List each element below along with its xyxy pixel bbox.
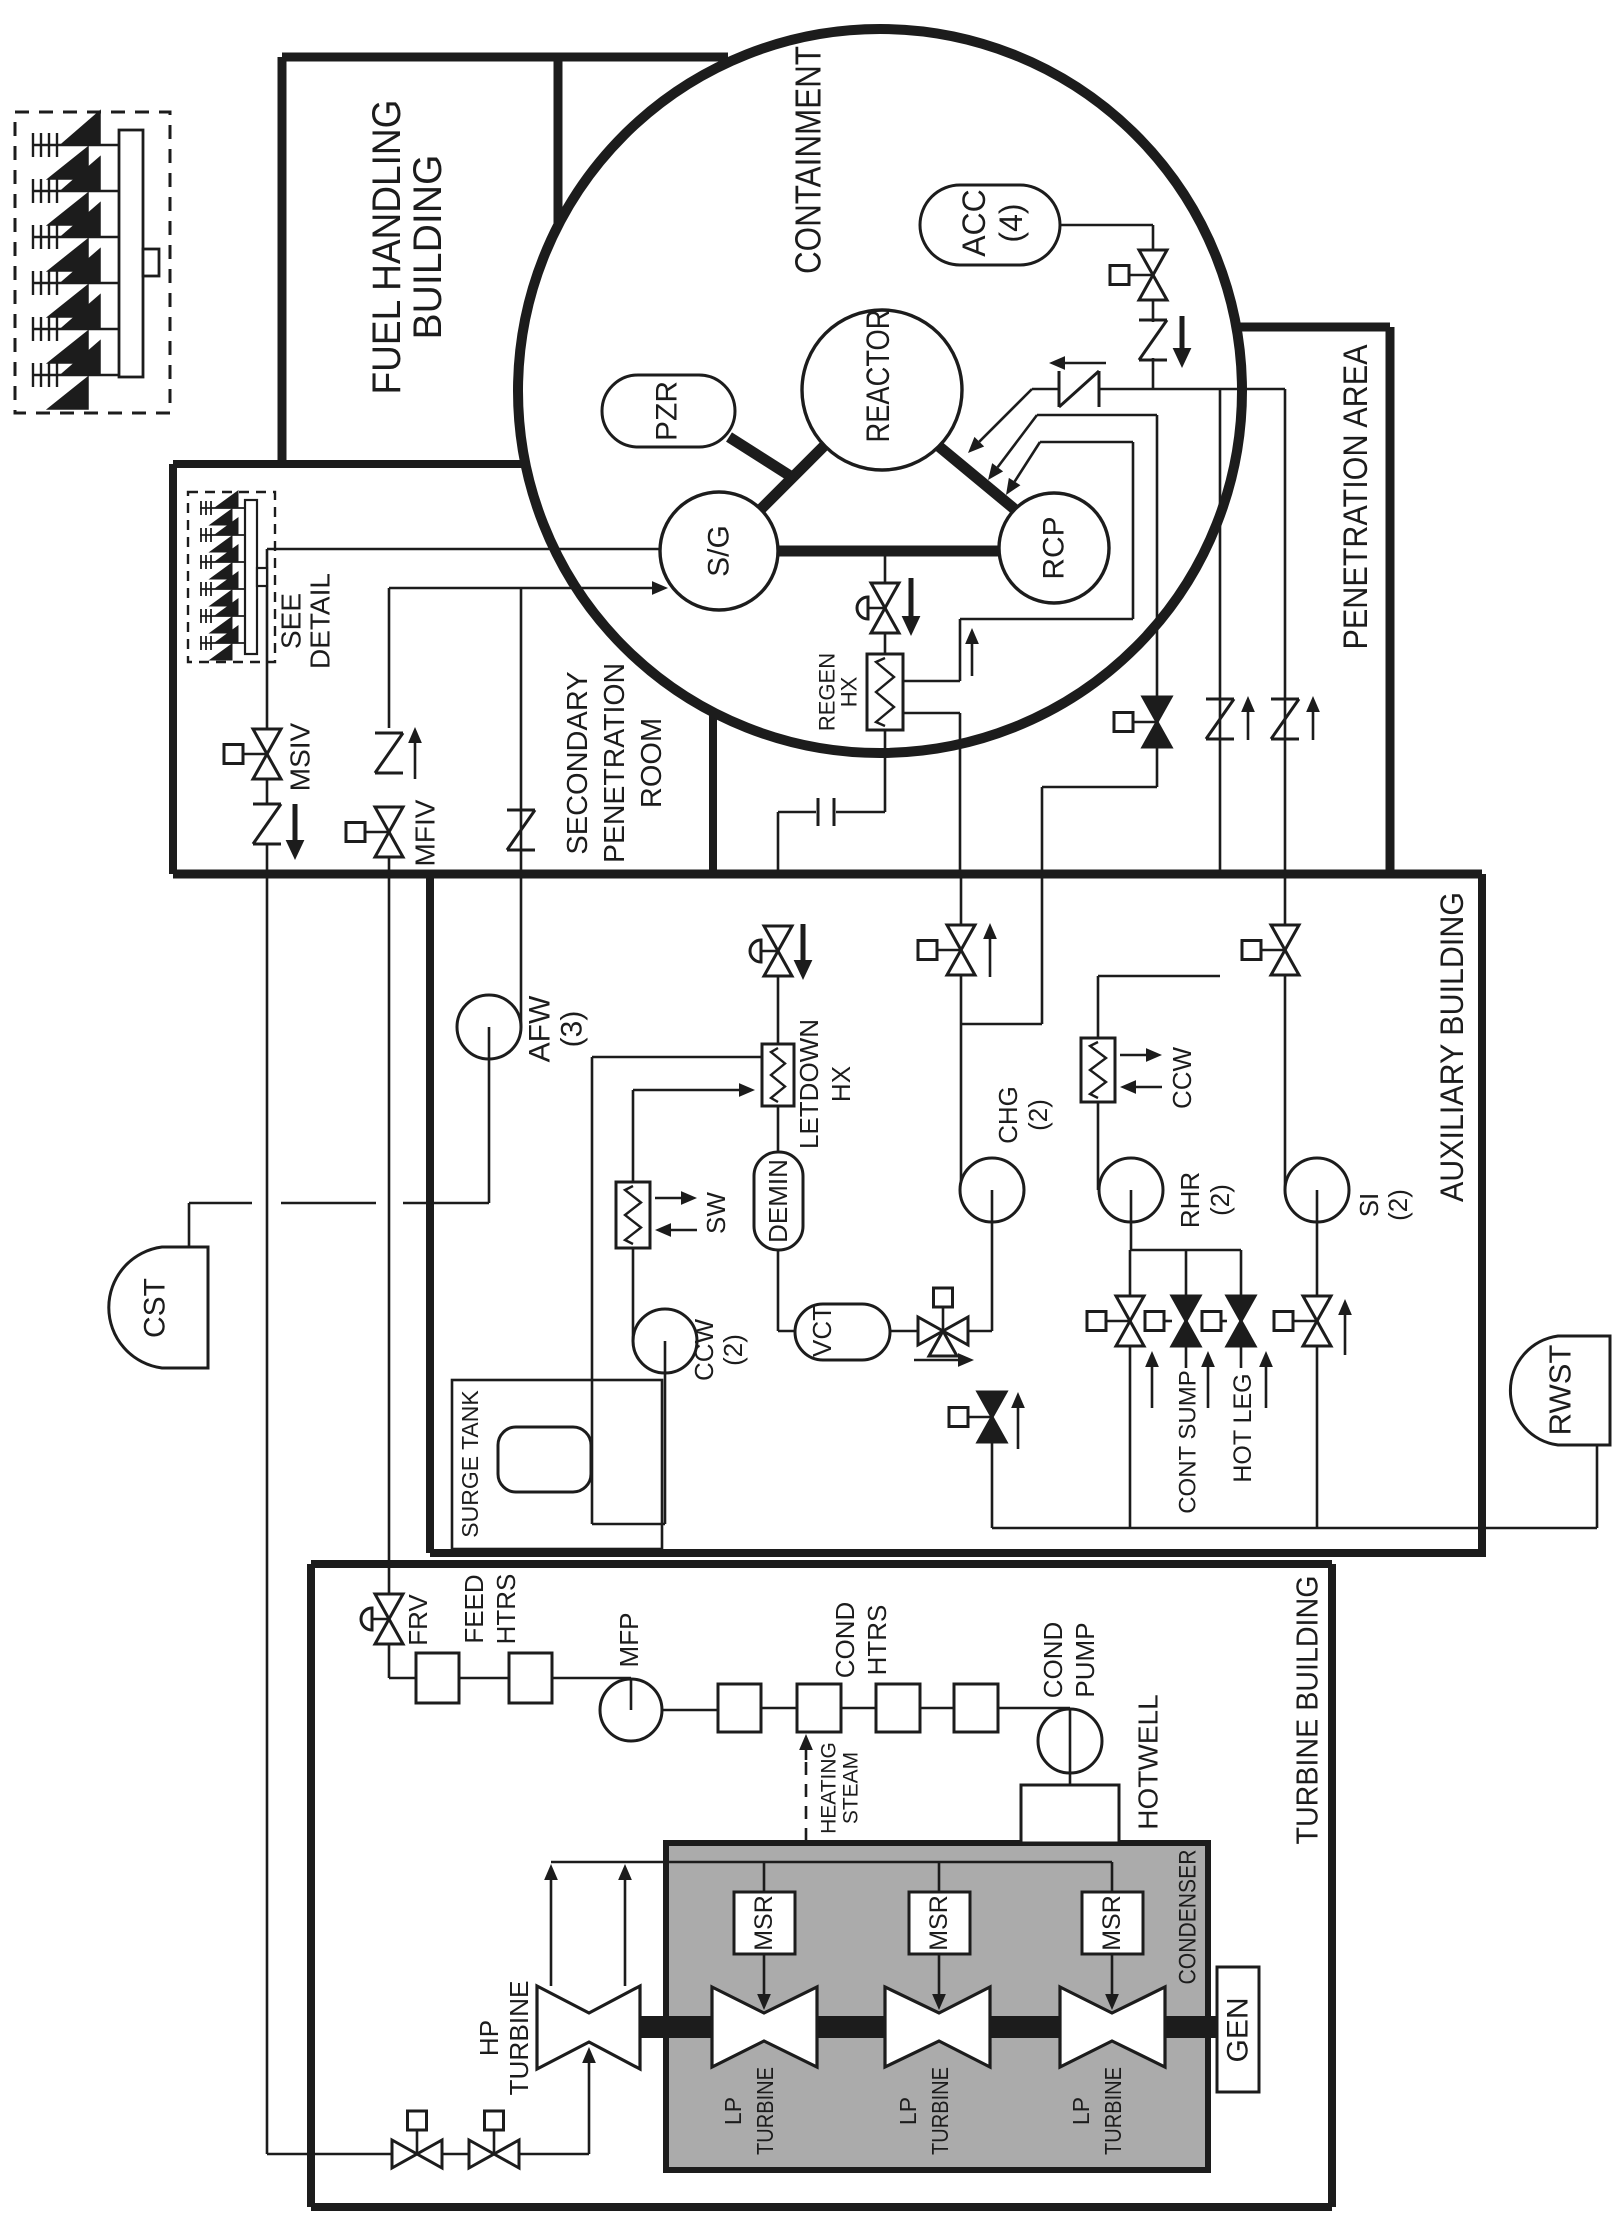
wire MSR stub 1 bbox=[763, 1862, 766, 1892]
wire VCT to 3way bbox=[890, 1330, 918, 1333]
msr arrow 3 bbox=[1111, 1954, 1114, 1994]
flow arrow up charging bbox=[971, 644, 974, 676]
svg-text:FUEL HANDLING: FUEL HANDLING bbox=[365, 100, 409, 395]
wire RHR suction line bbox=[1219, 389, 1222, 874]
flow arrow down letdown aux bbox=[801, 924, 806, 960]
wire MSIV to relief bbox=[266, 779, 269, 804]
svg-text:(3): (3) bbox=[556, 1011, 589, 1048]
safety injection pump SI bbox=[1285, 1158, 1349, 1222]
main steam arrow into HP bbox=[588, 2063, 591, 2154]
ccw supply arrow bbox=[1120, 1054, 1146, 1057]
wire SI injection diagonal bbox=[979, 389, 1032, 442]
svg-text:TURBINE: TURBINE bbox=[1100, 2067, 1126, 2155]
svg-text:MSR: MSR bbox=[750, 1895, 778, 1951]
svg-text:DEMIN: DEMIN bbox=[763, 1159, 793, 1243]
component cooling HX on RHR bbox=[1081, 1038, 1115, 1102]
svg-text:HOT LEG: HOT LEG bbox=[1229, 1373, 1257, 1482]
wire seal outer diagonal bbox=[998, 415, 1037, 467]
svg-text:SECONDARY: SECONDARY bbox=[562, 671, 594, 854]
condensate heater 3 bbox=[876, 1684, 920, 1732]
main feed pump MFP bbox=[600, 1679, 662, 1741]
condensate pump bbox=[1038, 1709, 1102, 1773]
feedwater heater 2 bbox=[509, 1653, 552, 1703]
wire ch3-ch4 bbox=[920, 1707, 954, 1710]
relief valve main steam bbox=[253, 803, 281, 806]
wire charging suction header bbox=[991, 1441, 994, 1528]
wire RHR pump header bbox=[1130, 1249, 1241, 1252]
svg-text:HTRS: HTRS bbox=[491, 1574, 521, 1645]
wire MFP to cond heaters bbox=[662, 1709, 718, 1712]
svg-text:GEN: GEN bbox=[1222, 1997, 1255, 2062]
moisture separator MSR 1 bbox=[734, 1892, 795, 1954]
moisture separator MSR 2 bbox=[909, 1892, 970, 1954]
building boundary wall (aux top) bbox=[173, 870, 1482, 879]
svg-text:TURBINE: TURBINE bbox=[504, 1981, 534, 2096]
flow arrow down letdown bbox=[909, 578, 914, 616]
svg-text:TURBINE BUILDING: TURBINE BUILDING bbox=[1290, 1576, 1325, 1845]
wire RHR drop A bbox=[1129, 1250, 1132, 1297]
wire seal inner diagonal bbox=[1015, 442, 1040, 482]
heating steam dashed line bbox=[805, 1762, 808, 1984]
svg-text:CONTAINMENT: CONTAINMENT bbox=[788, 46, 829, 274]
wire SI pump suction line bbox=[1284, 389, 1287, 874]
heating steam arrow bbox=[805, 1750, 808, 1760]
flow arrow up SI suction bbox=[1344, 1315, 1347, 1355]
wire ACC to relief bbox=[1152, 299, 1155, 322]
turbine control valve bbox=[469, 2140, 494, 2168]
svg-text:(2): (2) bbox=[1383, 1189, 1413, 1221]
svg-text:BUILDING: BUILDING bbox=[406, 155, 450, 340]
wire SW HX to CCW pump bbox=[632, 1248, 635, 1341]
wire feedwater to S/G bbox=[389, 587, 652, 590]
reactor coolant pump RCP bbox=[999, 493, 1109, 603]
wire main steam turbine inlet bbox=[267, 2153, 392, 2156]
wire seal injection outer bbox=[1037, 414, 1157, 417]
svg-text:ACC: ACC bbox=[956, 189, 992, 257]
wire ch4 to cond pump bbox=[998, 1707, 1070, 1710]
svg-text:(2): (2) bbox=[1023, 1099, 1053, 1131]
moisture separator MSR 3 bbox=[1082, 1892, 1143, 1954]
demineralizer DEMIN bbox=[754, 1152, 803, 1250]
wire RWST suction bbox=[1596, 1445, 1599, 1528]
surge tank box bbox=[452, 1380, 662, 1549]
mini fuel assembly 1 bbox=[200, 507, 245, 509]
secondary penetration room outline bbox=[173, 460, 525, 468]
svg-text:TURBINE: TURBINE bbox=[927, 2067, 953, 2155]
wire MSR stub 2 bbox=[938, 1862, 941, 1892]
wire crossover header bbox=[551, 1861, 1112, 1864]
svg-text:LP: LP bbox=[895, 2097, 921, 2125]
containment penetration symbol bbox=[817, 798, 820, 826]
svg-text:AFW: AFW bbox=[524, 995, 557, 1062]
sw supply arrow bbox=[655, 1197, 681, 1200]
auxiliary feedwater pump AFW bbox=[457, 995, 521, 1059]
refueling water storage tank RWST bbox=[1510, 1336, 1610, 1445]
wire SW HX to letdown HX bbox=[633, 1089, 739, 1092]
wire RHR drop A lower bbox=[1129, 1345, 1132, 1528]
valve seal return (closed) bbox=[1143, 697, 1171, 722]
residual heat removal pump RHR bbox=[1099, 1158, 1163, 1222]
wire hot leg reactor-RCP bbox=[936, 444, 1018, 512]
check valve RHR line bbox=[1206, 698, 1234, 701]
wire charging from aux bbox=[959, 713, 962, 874]
svg-text:(2): (2) bbox=[718, 1334, 748, 1366]
svg-text:HEATING: HEATING bbox=[818, 1742, 841, 1834]
wire hot leg stub bbox=[1240, 1345, 1243, 1368]
actuator between A-B bbox=[1164, 1320, 1172, 1323]
fuel assembly 6 bbox=[32, 374, 119, 376]
flow arrow up hot leg bbox=[1265, 1367, 1268, 1408]
containment circle bbox=[518, 29, 1242, 753]
check valve AFW line bbox=[507, 809, 535, 812]
LP turbine 3 bbox=[1060, 1987, 1165, 2067]
condensate heater 1 bbox=[718, 1684, 761, 1732]
svg-text:MSR: MSR bbox=[1098, 1895, 1126, 1951]
wire letdown from cold leg bbox=[884, 551, 887, 583]
regenerative heat exchanger REGEN HX bbox=[867, 654, 903, 730]
generator GEN bbox=[1217, 1967, 1259, 2092]
wire SI suction lower bbox=[1316, 1345, 1319, 1528]
check valve SI injection bbox=[1058, 371, 1061, 407]
LP turbine 2 bbox=[885, 1987, 990, 2067]
LP turbine 1 bbox=[712, 1987, 817, 2067]
svg-text:HP: HP bbox=[474, 2020, 504, 2056]
svg-text:CST: CST bbox=[139, 1278, 172, 1338]
wire ch2-ch3 bbox=[841, 1707, 876, 1710]
wire 3way to charging line bbox=[968, 1330, 992, 1333]
turbine stop valve bbox=[392, 2140, 417, 2168]
auxiliary building outline bbox=[1478, 874, 1486, 1553]
wire SI header bbox=[1098, 388, 1285, 391]
valve charging isolation bbox=[947, 925, 975, 950]
svg-text:AUXILIARY BUILDING: AUXILIARY BUILDING bbox=[1434, 892, 1470, 1202]
svg-text:HX: HX bbox=[826, 1066, 856, 1102]
fuel assembly 4 bbox=[32, 282, 119, 284]
svg-text:STEAM: STEAM bbox=[840, 1752, 863, 1824]
svg-text:SEE: SEE bbox=[276, 593, 307, 649]
svg-text:PZR: PZR bbox=[651, 381, 684, 441]
wire MSR stub 3 bbox=[1111, 1862, 1114, 1892]
auxiliary building west wall bbox=[426, 874, 434, 1553]
svg-text:S/G: S/G bbox=[703, 525, 736, 577]
svg-text:FEED: FEED bbox=[459, 1574, 489, 1643]
flow arrow up A bbox=[1151, 1367, 1154, 1408]
wire seal return riser bbox=[1156, 415, 1159, 697]
mini rack tab bbox=[257, 568, 267, 586]
charging pump CHG bbox=[960, 1158, 1024, 1222]
svg-text:CHG: CHG bbox=[993, 1086, 1023, 1144]
fuel assembly 2 bbox=[32, 190, 119, 192]
wire letdown HX to demin bbox=[777, 1106, 780, 1152]
svg-text:RHR: RHR bbox=[1175, 1172, 1205, 1228]
hotwell bbox=[1021, 1785, 1119, 1843]
valve cont sump (closed) bbox=[1172, 1296, 1200, 1321]
svg-text:CONDENSER: CONDENSER bbox=[1175, 1850, 1202, 1985]
main feedwater isolation valve MFIV bbox=[375, 807, 403, 832]
wire letdown to regen HX bbox=[884, 633, 887, 654]
wire FRV to feed heaters bbox=[388, 1644, 391, 1678]
wire charging pump discharge bbox=[960, 874, 963, 926]
flow arrow left SI injection bbox=[1065, 362, 1106, 365]
spent fuel rack bar bbox=[119, 130, 143, 377]
surge tank bbox=[498, 1427, 591, 1492]
mini fuel assembly 6 bbox=[200, 642, 245, 644]
check valve SI line bbox=[1271, 698, 1299, 701]
wire RHR drop C bbox=[1240, 1250, 1243, 1297]
svg-text:VCT: VCT bbox=[807, 1305, 837, 1357]
svg-text:PENETRATION AREA: PENETRATION AREA bbox=[1337, 344, 1375, 649]
svg-text:MFIV: MFIV bbox=[410, 799, 441, 866]
svg-text:SW: SW bbox=[701, 1192, 731, 1234]
wire regen HX side taps bbox=[903, 680, 960, 683]
valve RHR suction A bbox=[1116, 1296, 1144, 1321]
wire letdown to letdown HX bbox=[777, 976, 780, 1044]
feed reg valve FRV bbox=[375, 1594, 403, 1619]
letdown heat exchanger bbox=[762, 1044, 794, 1106]
turbine building outline bbox=[307, 1564, 315, 2207]
svg-text:SI: SI bbox=[1354, 1193, 1384, 1218]
mini spent fuel dashed box bbox=[188, 492, 275, 662]
wire main steam to turbine bldg bbox=[266, 844, 269, 2154]
wire ACC relief to SI header bbox=[1152, 358, 1155, 389]
turbine generator shaft bbox=[589, 2016, 1238, 2038]
svg-text:COND: COND bbox=[1038, 1622, 1068, 1699]
condenser shaded box bbox=[666, 1843, 1208, 2170]
flow arrow up RHR line bbox=[1247, 712, 1250, 740]
valve letdown control bbox=[871, 583, 899, 608]
svg-text:LP: LP bbox=[1068, 2097, 1094, 2125]
wire charging riser bbox=[959, 619, 962, 681]
fuel handling building outline bbox=[282, 53, 728, 62]
mini fuel assembly 2 bbox=[200, 534, 245, 536]
svg-text:RCP: RCP bbox=[1038, 516, 1071, 579]
svg-text:HOTWELL: HOTWELL bbox=[1133, 1694, 1164, 1829]
svg-text:SURGE TANK: SURGE TANK bbox=[457, 1390, 483, 1538]
svg-text:REACTOR: REACTOR bbox=[860, 310, 896, 443]
flow arrow up cont sump bbox=[1207, 1367, 1210, 1408]
valve SI suction bbox=[1303, 1296, 1331, 1321]
flow arrow up SI line bbox=[1312, 712, 1315, 740]
valve hot leg recirc (closed) bbox=[1227, 1296, 1255, 1321]
condensate heater 2 bbox=[797, 1684, 841, 1732]
svg-text:ROOM: ROOM bbox=[636, 718, 668, 808]
fuel assembly 3 bbox=[32, 236, 119, 238]
steam generator S/G bbox=[660, 492, 778, 610]
wire main steam from S/G bbox=[267, 548, 660, 551]
sw return arrow bbox=[671, 1229, 697, 1232]
svg-text:CONT SUMP: CONT SUMP bbox=[1175, 1370, 1202, 1514]
component cooling pump CCW bbox=[633, 1309, 697, 1373]
svg-text:CCW: CCW bbox=[689, 1318, 719, 1381]
svg-text:(2): (2) bbox=[1205, 1184, 1235, 1216]
svg-text:(4): (4) bbox=[993, 203, 1029, 242]
wire feedwater to FRV bbox=[388, 857, 391, 1594]
ccw return arrow bbox=[1136, 1086, 1162, 1089]
svg-text:HX: HX bbox=[837, 676, 862, 707]
svg-text:LP: LP bbox=[720, 2097, 746, 2125]
penetration area outline bbox=[1240, 323, 1390, 332]
svg-text:CCW: CCW bbox=[1167, 1046, 1197, 1109]
wire ACC discharge bbox=[1060, 224, 1153, 227]
flow arrow down ACC line bbox=[1180, 316, 1185, 348]
spent fuel rack tab bbox=[143, 249, 159, 276]
mini fuel assembly 3 bbox=[200, 561, 245, 563]
hp exhaust arrow 1 bbox=[550, 1880, 553, 1986]
wire letdown-charging jog bbox=[1041, 874, 1044, 1024]
spent fuel pool detail dashed box bbox=[15, 112, 170, 413]
HP turbine bbox=[537, 1986, 640, 2069]
wire RHR from pen area bbox=[1098, 975, 1220, 978]
wire cont sump stub bbox=[1185, 1345, 1188, 1368]
wire SI pump line bbox=[1284, 874, 1287, 926]
wire seal injection inner bbox=[1040, 441, 1133, 444]
mini rack bar bbox=[245, 500, 257, 654]
wire PZR surge line bbox=[729, 437, 795, 479]
feedwater heater 1 bbox=[416, 1653, 459, 1703]
valve SI pump discharge bbox=[1271, 925, 1299, 950]
wire letdown outlet bbox=[884, 730, 887, 812]
svg-text:HTRS: HTRS bbox=[862, 1605, 892, 1676]
flow arrow up charging aux bbox=[989, 939, 992, 977]
svg-text:RWST: RWST bbox=[1543, 1345, 1578, 1436]
wire RHR drop B bbox=[1185, 1250, 1188, 1297]
wire feed heater to MFP bbox=[552, 1677, 631, 1680]
wire cold leg S/G-RCP bbox=[775, 546, 1002, 557]
mini fuel assembly 5 bbox=[200, 615, 245, 617]
wire demin to VCT bbox=[777, 1250, 780, 1331]
flow arrow up chg suction bbox=[1017, 1408, 1020, 1449]
accumulator ACC bbox=[920, 185, 1060, 265]
wire CST suction header bbox=[189, 1202, 252, 1205]
svg-text:LETDOWN: LETDOWN bbox=[794, 1019, 824, 1149]
valve letdown aux control bbox=[764, 926, 792, 951]
svg-text:COND: COND bbox=[830, 1602, 860, 1679]
valve charging suction (closed) bbox=[978, 1392, 1006, 1417]
flow arrow up MFIV line bbox=[414, 743, 417, 779]
flow arrow right 3way bbox=[914, 1359, 958, 1362]
svg-text:FRV: FRV bbox=[403, 1594, 433, 1646]
valve ACC isolation bbox=[1139, 250, 1167, 275]
wire CCW supply to letdown HX bbox=[592, 1056, 762, 1059]
condensate heater 4 bbox=[954, 1684, 998, 1732]
svg-text:TURBINE: TURBINE bbox=[752, 2067, 778, 2155]
service water HX bbox=[616, 1182, 650, 1248]
wire AFW riser bbox=[520, 588, 523, 1027]
svg-text:MFP: MFP bbox=[614, 1613, 644, 1668]
actuator between B-C bbox=[1221, 1320, 1227, 1323]
relief valve on ACC line bbox=[1139, 319, 1167, 322]
wire seal return to aux bbox=[1156, 747, 1159, 787]
volume control tank VCT bbox=[795, 1304, 890, 1360]
wire RHR HX to pump bbox=[1097, 1102, 1100, 1190]
msr arrow 2 bbox=[938, 1954, 941, 1994]
reactor vessel bbox=[802, 310, 962, 470]
svg-text:DETAIL: DETAIL bbox=[305, 573, 336, 669]
svg-text:MSR: MSR bbox=[925, 1895, 953, 1951]
condensate storage tank CST bbox=[109, 1247, 208, 1368]
svg-text:PENETRATION: PENETRATION bbox=[599, 663, 631, 863]
wire reactor-S/G leg bbox=[760, 446, 824, 510]
hp exhaust arrow 2 bbox=[624, 1880, 627, 1986]
svg-text:MSIV: MSIV bbox=[285, 722, 316, 791]
wire CCW pump to riser bbox=[592, 1523, 665, 1526]
fuel assembly 5 bbox=[32, 328, 119, 330]
svg-text:PUMP: PUMP bbox=[1070, 1622, 1100, 1697]
fuel assembly 1 bbox=[32, 144, 119, 146]
msr arrow 1 bbox=[763, 1954, 766, 1994]
wire between feed heaters bbox=[459, 1677, 509, 1680]
check valve MFIV line bbox=[375, 732, 403, 735]
main steam isolation valve MSIV bbox=[253, 729, 281, 754]
valve 3-way charging suction bbox=[918, 1317, 943, 1345]
wire ch1-ch2 bbox=[761, 1707, 797, 1710]
flow arrow down main steam bbox=[293, 804, 298, 840]
pressurizer PZR bbox=[602, 375, 735, 447]
mini fuel assembly 4 bbox=[200, 588, 245, 590]
